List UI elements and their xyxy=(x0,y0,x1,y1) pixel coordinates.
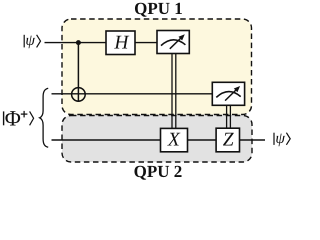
meter M2 needle xyxy=(225,89,237,101)
ket psi output: right angle bracket xyxy=(286,133,290,145)
ket psi input: right angle bracket xyxy=(37,35,41,48)
classical double wire from meter M2 to gate Z xyxy=(226,105,228,129)
svg-text:ψ: ψ xyxy=(25,32,35,49)
brace for Bell pair xyxy=(40,88,49,147)
meter M2 arc xyxy=(216,92,240,98)
meter M1 needle arrowhead xyxy=(179,34,185,40)
CNOT vertical link xyxy=(77,43,79,102)
wire q2 (bottom qubit) xyxy=(52,139,266,141)
ket Phi+ : plus superscript xyxy=(21,113,28,115)
wire q1 (middle qubit) xyxy=(52,93,213,95)
CNOT control dot xyxy=(76,40,81,45)
svg-text:QPU 1: QPU 1 xyxy=(134,0,183,18)
svg-text:X: X xyxy=(167,129,181,150)
meter M1 needle xyxy=(170,37,182,49)
QPU 1 dashed region xyxy=(62,19,252,115)
svg-text:Φ: Φ xyxy=(5,106,21,131)
svg-text:Z: Z xyxy=(223,129,234,150)
meter M2 box xyxy=(212,82,244,105)
ket Phi+ : bar xyxy=(3,111,5,125)
gate X box xyxy=(161,128,188,151)
svg-text:H: H xyxy=(113,33,129,54)
ket psi input: bar xyxy=(23,35,25,48)
ket Phi+ : right angle bracket xyxy=(30,111,34,125)
meter M1 arc xyxy=(161,40,185,46)
svg-text:ψ: ψ xyxy=(275,130,285,147)
meter M1 box xyxy=(157,31,189,54)
wire q0 (top qubit) xyxy=(45,42,158,44)
QPU 2 dashed region xyxy=(62,116,252,163)
gate H box xyxy=(106,31,135,55)
gate Z box xyxy=(216,128,239,152)
ket psi output: bar xyxy=(273,133,275,145)
meter M2 needle arrowhead xyxy=(234,86,240,92)
svg-text:QPU 2: QPU 2 xyxy=(134,162,183,181)
classical double wire from meter M1 to gate X xyxy=(171,53,173,128)
CNOT target (XOR circle) xyxy=(72,88,86,102)
